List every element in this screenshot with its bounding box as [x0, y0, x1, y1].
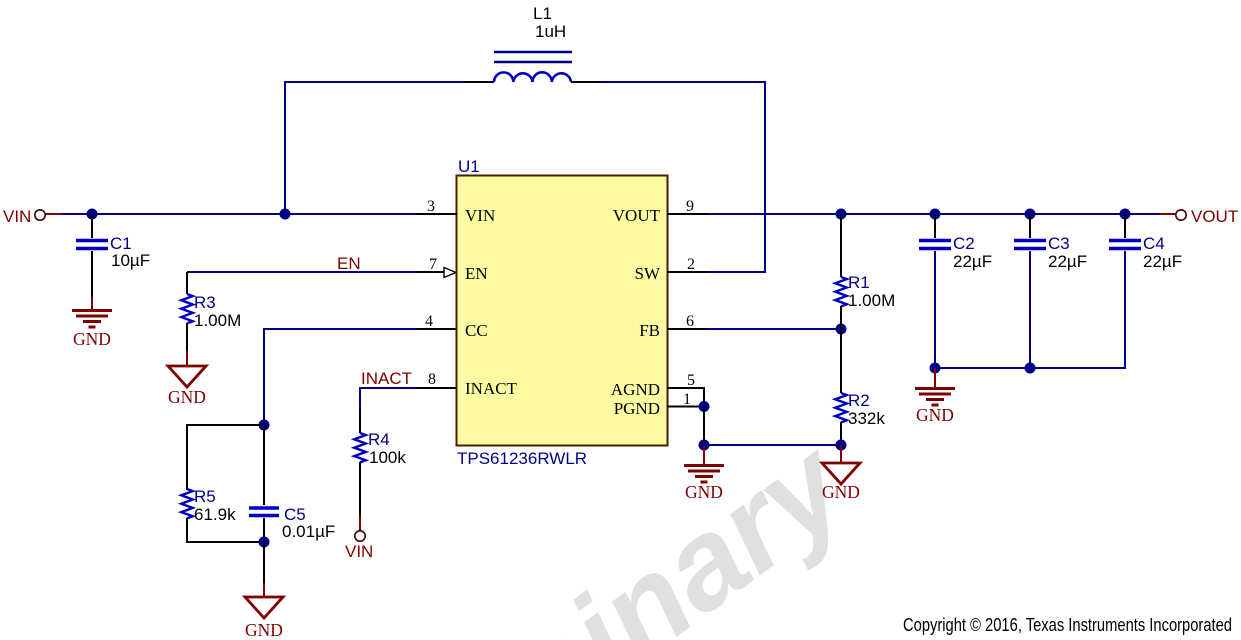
- svg-text:3: 3: [427, 198, 435, 215]
- junction ground tap: [699, 440, 710, 451]
- svg-text:TPS61236RWLR: TPS61236RWLR: [457, 449, 587, 468]
- svg-text:R2: R2: [848, 391, 870, 410]
- junction R5/C5 top: [259, 420, 270, 431]
- pin 6 FB stub: [667, 328, 707, 330]
- junction C2 tap: [930, 209, 941, 220]
- svg-text:GND: GND: [822, 482, 860, 502]
- wire main VIN rail: [62, 213, 417, 215]
- svg-text:4: 4: [425, 313, 433, 330]
- svg-text:INACT: INACT: [361, 369, 412, 388]
- svg-text:GND: GND: [916, 405, 954, 425]
- svg-text:GND: GND: [73, 329, 111, 349]
- svg-text:332k: 332k: [848, 409, 885, 428]
- svg-text:U1: U1: [458, 157, 480, 176]
- terminal VOUT: [1176, 210, 1186, 220]
- capacitor C1: [76, 214, 108, 297]
- resistor R3: [181, 272, 193, 351]
- pin 9 VOUT stub: [667, 213, 707, 215]
- svg-text:VOUT: VOUT: [613, 206, 661, 225]
- wire top run right: [571, 81, 766, 83]
- capacitor C5: [249, 425, 279, 542]
- terminal VIN (bottom): [355, 531, 365, 541]
- wire ground bus to R2: [704, 444, 841, 446]
- wire FB net: [667, 328, 841, 330]
- wire VIN port stub (maroon): [45, 213, 62, 215]
- junction C3 bottom: [1025, 363, 1036, 374]
- svg-text:6: 6: [686, 313, 694, 330]
- svg-text:VIN: VIN: [345, 542, 373, 561]
- capacitor C3: [1014, 214, 1046, 368]
- resistor R1: [835, 214, 847, 329]
- junction L1 tap: [280, 209, 291, 220]
- svg-text:CC: CC: [465, 321, 488, 340]
- svg-text:1.00M: 1.00M: [194, 311, 241, 330]
- ground triangle under R3: [168, 351, 206, 387]
- svg-text:22µF: 22µF: [953, 252, 992, 271]
- svg-text:GND: GND: [168, 387, 206, 407]
- svg-text:Copyright © 2016, Texas Instru: Copyright © 2016, Texas Instruments Inco…: [903, 614, 1232, 635]
- wire CC net: [264, 328, 457, 425]
- svg-text:8: 8: [428, 371, 436, 388]
- svg-text:R5: R5: [194, 487, 216, 506]
- svg-text:EN: EN: [337, 254, 361, 273]
- svg-text:PGND: PGND: [614, 399, 660, 418]
- wire L1 riser: [284, 82, 286, 214]
- wire R5 branch bottom: [186, 541, 264, 543]
- svg-text:9: 9: [686, 198, 694, 215]
- wire PGND down: [703, 407, 705, 446]
- svg-text:AGND: AGND: [611, 380, 660, 399]
- inductor L1: [494, 52, 572, 82]
- svg-text:1.00M: 1.00M: [848, 291, 895, 310]
- svg-text:2: 2: [687, 256, 695, 273]
- wire SW horizontal: [707, 271, 765, 273]
- svg-text:61.9k: 61.9k: [194, 505, 236, 524]
- junction R5/C5 bottom: [259, 537, 270, 548]
- wire SW riser: [764, 81, 766, 273]
- capacitor C4: [1109, 214, 1141, 368]
- wire EN net: [187, 271, 444, 273]
- terminal VIN (left): [35, 210, 45, 220]
- svg-text:VOUT: VOUT: [1191, 207, 1238, 226]
- wire INACT net: [360, 387, 457, 410]
- junction R1 tap: [836, 209, 847, 220]
- junction C4 tap: [1120, 209, 1131, 220]
- junction AGND/PGND: [699, 401, 710, 412]
- svg-text:EN: EN: [465, 264, 488, 283]
- capacitor C2: [919, 214, 951, 368]
- junction R2 bottom: [836, 440, 847, 451]
- svg-text:1uH: 1uH: [535, 22, 566, 41]
- wire to ground from C5: [263, 542, 265, 597]
- resistor R2: [835, 329, 847, 445]
- junction C2 bottom: [930, 363, 941, 374]
- svg-text:R3: R3: [194, 293, 216, 312]
- svg-text:R4: R4: [368, 430, 390, 449]
- svg-text:FB: FB: [639, 321, 660, 340]
- svg-text:C2: C2: [953, 234, 975, 253]
- resistor R4: [354, 410, 366, 516]
- pin 2 SW stub: [667, 271, 707, 273]
- ground earth under cap bus: [915, 368, 955, 405]
- junction FB divider: [836, 324, 847, 335]
- svg-text:1: 1: [683, 391, 691, 408]
- svg-text:C4: C4: [1143, 234, 1165, 253]
- svg-text:L1: L1: [533, 4, 552, 23]
- svg-text:0.01µF: 0.01µF: [282, 522, 335, 541]
- wire capacitor ground bus: [935, 367, 1126, 369]
- IC U1 body: [457, 176, 668, 446]
- junction C1 tap: [87, 209, 98, 220]
- ground earth under C1: [72, 297, 112, 327]
- ground triangle under R2: [822, 445, 860, 484]
- svg-text:VIN: VIN: [3, 207, 31, 226]
- wire R4 to VIN port (maroon): [359, 516, 361, 531]
- svg-text:VIN: VIN: [465, 206, 495, 225]
- ground earth under PGND: [684, 445, 724, 482]
- wire top run left: [284, 81, 494, 83]
- pin 1 PGND stub: [667, 406, 704, 408]
- svg-text:INACT: INACT: [465, 379, 518, 398]
- svg-text:SW: SW: [635, 264, 661, 283]
- ground triangle under C5: [245, 597, 283, 618]
- svg-text:GND: GND: [245, 620, 283, 640]
- resistor R5: [181, 489, 193, 542]
- pin 3 VIN stub: [417, 213, 457, 215]
- svg-text:10µF: 10µF: [111, 251, 150, 270]
- svg-text:GND: GND: [685, 482, 723, 502]
- svg-text:22µF: 22µF: [1048, 252, 1087, 271]
- wire R5 branch top: [187, 424, 264, 490]
- svg-text:5: 5: [687, 372, 695, 389]
- pin 7 EN input triangle: [444, 268, 456, 278]
- svg-text:100k: 100k: [369, 448, 406, 467]
- wire VOUT rail: [707, 213, 1176, 215]
- pin 5 AGND stub: [667, 387, 704, 406]
- svg-text:R1: R1: [848, 273, 870, 292]
- svg-text:22µF: 22µF: [1143, 252, 1182, 271]
- junction C3 tap: [1025, 209, 1036, 220]
- svg-text:C3: C3: [1048, 234, 1070, 253]
- svg-text:7: 7: [429, 256, 437, 273]
